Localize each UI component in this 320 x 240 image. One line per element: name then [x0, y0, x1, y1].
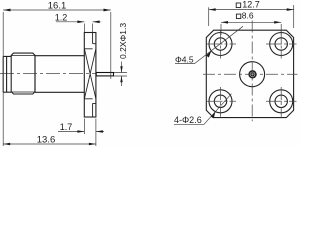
body [11, 53, 35, 94]
svg-text:0.2XΦ1.3: 0.2XΦ1.3 [118, 23, 128, 59]
center small circle [249, 71, 256, 78]
svg-text:1.2: 1.2 [55, 12, 68, 22]
hole BL [209, 90, 232, 113]
body hex flat lines [11, 56, 35, 92]
flange edge [84, 33, 96, 118]
centerline side view [0, 73, 96, 75]
dim 16.1 line [3, 9, 111, 11]
dim 13.6 [3, 143, 96, 145]
svg-text:4-Φ2.6: 4-Φ2.6 [174, 115, 202, 125]
flange X hatch [84, 49, 96, 99]
dim 16.1 ext left [2, 12, 4, 146]
center body circle [240, 62, 265, 87]
dim 8.6 [221, 22, 281, 35]
barrel [35, 56, 84, 93]
flange hatch bounds [84, 49, 92, 99]
center pin [251, 73, 254, 76]
dim 1.2 [56, 22, 101, 32]
svg-text:16.1: 16.1 [48, 1, 67, 12]
dim 1.7 [58, 119, 104, 147]
hole TR [270, 33, 293, 56]
flange square [206, 30, 293, 117]
dim 16.1 arrows [3, 9, 111, 12]
dim 16.1 ext right [110, 12, 112, 79]
centerlines right view [203, 21, 298, 122]
hole TL [209, 33, 232, 56]
lip [3, 56, 11, 92]
svg-text:1.7: 1.7 [60, 122, 73, 132]
hole centerlines [207, 43, 297, 45]
flange divider top [93, 33, 96, 118]
pin [96, 73, 113, 76]
svg-text:13.6: 13.6 [37, 135, 56, 146]
svg-text:12.7: 12.7 [242, 0, 260, 10]
svg-text:8.6: 8.6 [242, 11, 254, 21]
hole BR [270, 90, 293, 113]
svg-text:Φ4.5: Φ4.5 [175, 54, 194, 64]
dim 12.7 [209, 5, 294, 28]
